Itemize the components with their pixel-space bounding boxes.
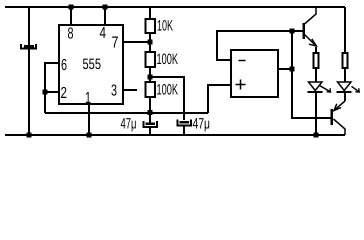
wire: pin 2 stub <box>45 91 59 93</box>
svg-text:6: 6 <box>61 57 67 74</box>
wire: pin 8 to +V rail <box>70 7 72 25</box>
node: C1 ground junction <box>27 133 32 138</box>
resistor R1 10K <box>146 7 156 42</box>
svg-text:47μ: 47μ <box>121 116 137 133</box>
LED D1 emission arrow <box>320 86 331 93</box>
transistor Q1 emitter with arrow <box>305 35 317 47</box>
node: Q1 base junction <box>290 29 295 34</box>
wire: inverting input up and over to Q1 base <box>217 31 304 60</box>
wire: top rail drop to R4 <box>344 7 346 53</box>
wire: pins 2/6 node horizontal run <box>45 112 208 114</box>
wire: pin 6 stub <box>45 63 59 113</box>
resistor R5 (right LED) <box>343 53 348 82</box>
node: 100K/100K junction <box>148 75 153 80</box>
svg-text:7: 7 <box>112 35 119 52</box>
op-amp minus mark <box>239 60 246 62</box>
wire: feedback/base bus vertical <box>292 31 332 118</box>
svg-text:4: 4 <box>100 25 107 42</box>
svg-text:8: 8 <box>68 26 74 43</box>
wire: pin 7 stub to resistor node <box>123 41 150 43</box>
LED D1 cathode lead to ground <box>315 92 317 135</box>
wire: 100K junction over to C3 <box>150 77 184 120</box>
LED D2 cathode lead to Q2 emitter <box>344 92 346 101</box>
node: D1 ground junction <box>314 133 319 138</box>
wire: op-amp output stub <box>278 68 292 70</box>
wire: non-inverting input to pins 2/6 node <box>208 85 231 113</box>
node: threshold/cap junction <box>148 110 153 115</box>
LED D2 emission arrow <box>352 86 360 92</box>
node: pin2/6 junction <box>43 90 48 95</box>
node: pin4 rail junction <box>103 5 108 10</box>
svg-text:47μ: 47μ <box>193 116 211 133</box>
svg-text:10K: 10K <box>157 18 173 35</box>
capacitor C3 47u (right) <box>178 120 192 136</box>
LED D2 diode symbol <box>337 82 352 92</box>
wire: pin 4 to +V rail <box>104 7 106 25</box>
op-amp U2 box <box>231 50 278 97</box>
transistor Q2 emitter with arrow (PNP) <box>334 101 346 111</box>
wire: pin 3 output stub <box>123 89 137 91</box>
wire: +V top rail <box>5 6 345 8</box>
capacitor C1 (left electrolytic) <box>21 7 36 135</box>
resistor R3 100K lower <box>146 77 156 112</box>
op-amp plus mark <box>236 80 246 90</box>
node: pin1 ground junction <box>87 133 92 138</box>
transistor Q2 collector to ground rail <box>334 119 346 135</box>
svg-text:3: 3 <box>111 83 117 100</box>
svg-text:100K: 100K <box>157 51 179 68</box>
node: pin8 rail junction <box>69 5 74 10</box>
op-amp input polarity marks <box>236 61 246 90</box>
node: op-amp output junction <box>290 67 295 72</box>
LED D1 diode symbol <box>308 82 323 92</box>
svg-text:555: 555 <box>83 56 102 73</box>
IC U1 555 timer box <box>59 25 123 104</box>
svg-text:100K: 100K <box>157 82 179 99</box>
node: pin7 divider junction <box>148 40 153 45</box>
svg-text:1: 1 <box>85 90 91 107</box>
wire: node pin7 to 100K <box>149 42 151 52</box>
resistor R4 (left LED) <box>314 47 319 82</box>
transistor Q1 collector <box>305 7 317 24</box>
wire: bottom ground rail <box>5 134 345 136</box>
capacitor C2 47u (left) <box>144 113 158 135</box>
svg-text:2: 2 <box>61 85 68 102</box>
wire: pin 1 to ground rail <box>88 104 90 135</box>
transistor Q2 base bar <box>331 109 334 125</box>
resistor R2 100K upper <box>146 52 156 77</box>
transistor Q1 base bar <box>303 23 306 39</box>
